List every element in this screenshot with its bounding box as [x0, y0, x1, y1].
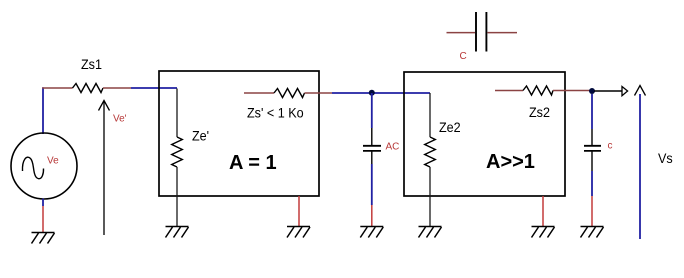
- svg-text:Zs2: Zs2: [529, 104, 550, 120]
- node N2 junction dot: [589, 88, 595, 94]
- arrow: output black line with open triangle head: [594, 90, 622, 92]
- wire: black lead from input wire down to Ze2: [429, 93, 431, 137]
- resistor Zs1: [73, 84, 104, 93]
- wire: blue node down to output cap: [591, 94, 593, 129]
- wire: black lead from input wire down to Ze': [176, 89, 178, 138]
- wire: dark red lead corner to Zs1: [42, 87, 72, 89]
- svg-text:Ve': Ve': [113, 114, 127, 125]
- wire: red to ground under AC: [371, 205, 373, 226]
- svg-text:Ve: Ve: [47, 156, 59, 167]
- node N1 junction dot: [369, 90, 375, 96]
- resistor Zs2 left lead: [495, 90, 523, 92]
- arrow Vs (blue vertical with open chevron head): [635, 86, 646, 96]
- wire: blue below output cap: [591, 171, 593, 196]
- wire: blue into box A=1: [131, 87, 177, 89]
- svg-text:Zs' < 1 Ko: Zs' < 1 Ko: [247, 105, 304, 121]
- resistor Zs' zigzag: [274, 89, 305, 98]
- ground under A=1 box: [287, 227, 310, 238]
- wire: dark red lead Zs1 to blue: [103, 87, 131, 89]
- arrow Ve' (vertical with open chevron head): [99, 101, 110, 236]
- capacitor C1 (top, floating) left lead: [447, 32, 476, 34]
- svg-text:AC: AC: [386, 141, 400, 152]
- wire: red from A=1 box bottom to ground: [298, 196, 300, 226]
- svg-text:A>>1: A>>1: [486, 151, 535, 173]
- ground under AC: [360, 227, 383, 238]
- svg-text:Vs: Vs: [658, 150, 673, 166]
- svg-text:Ze': Ze': [192, 128, 209, 144]
- wire: blue from Zs' through node into box A>>1: [332, 92, 430, 94]
- svg-text:c: c: [608, 141, 613, 152]
- ground under output cap: [581, 227, 604, 238]
- capacitor AC top lead: [371, 128, 373, 145]
- ground under Ze2: [419, 227, 442, 238]
- capacitor C out bottom lead: [591, 152, 593, 172]
- resistor Ze': [172, 137, 183, 167]
- svg-text:Zs1: Zs1: [81, 56, 102, 72]
- source V1 circle: [11, 133, 77, 199]
- capacitor AC plates: [363, 145, 381, 147]
- resistor Zs2 zigzag: [523, 86, 553, 95]
- sine symbol of source: [22, 157, 43, 179]
- capacitor C out plates: [584, 145, 601, 147]
- wire: left vertical blue from corner to source top: [42, 87, 44, 134]
- resistor Zs' right lead: [305, 92, 333, 94]
- ground under source: [32, 233, 55, 244]
- wire: blue node down to AC cap: [371, 93, 373, 128]
- capacitor AC bottom lead: [371, 152, 373, 165]
- wire: red from A>>1 box bottom to ground: [542, 196, 544, 226]
- svg-text:Ze2: Ze2: [439, 119, 461, 135]
- wire: blue stub under source: [42, 199, 44, 206]
- svg-text:C: C: [460, 51, 467, 62]
- wire: red to ground under output cap: [591, 196, 593, 226]
- wire: black lead Ze' to ground: [176, 167, 178, 226]
- ground under A>>1 box: [532, 227, 555, 238]
- op-amp block U2 (A>>1 box): [404, 72, 565, 196]
- op-amp block U1 (A = 1 box): [159, 71, 319, 196]
- capacitor C1 plates: [475, 12, 477, 52]
- resistor Ze2: [425, 137, 436, 167]
- capacitor C1 right lead: [487, 32, 517, 34]
- wire: red to ground under source: [42, 206, 44, 232]
- resistor Zs2 right lead: [553, 90, 592, 92]
- wire: blue below AC cap: [371, 164, 373, 205]
- resistor Zs' left lead: [244, 92, 274, 94]
- svg-text:A = 1: A = 1: [229, 152, 277, 174]
- ground under Ze': [166, 227, 189, 238]
- wire: black lead Ze2 to ground: [429, 167, 431, 226]
- capacitor C out top lead: [591, 129, 593, 145]
